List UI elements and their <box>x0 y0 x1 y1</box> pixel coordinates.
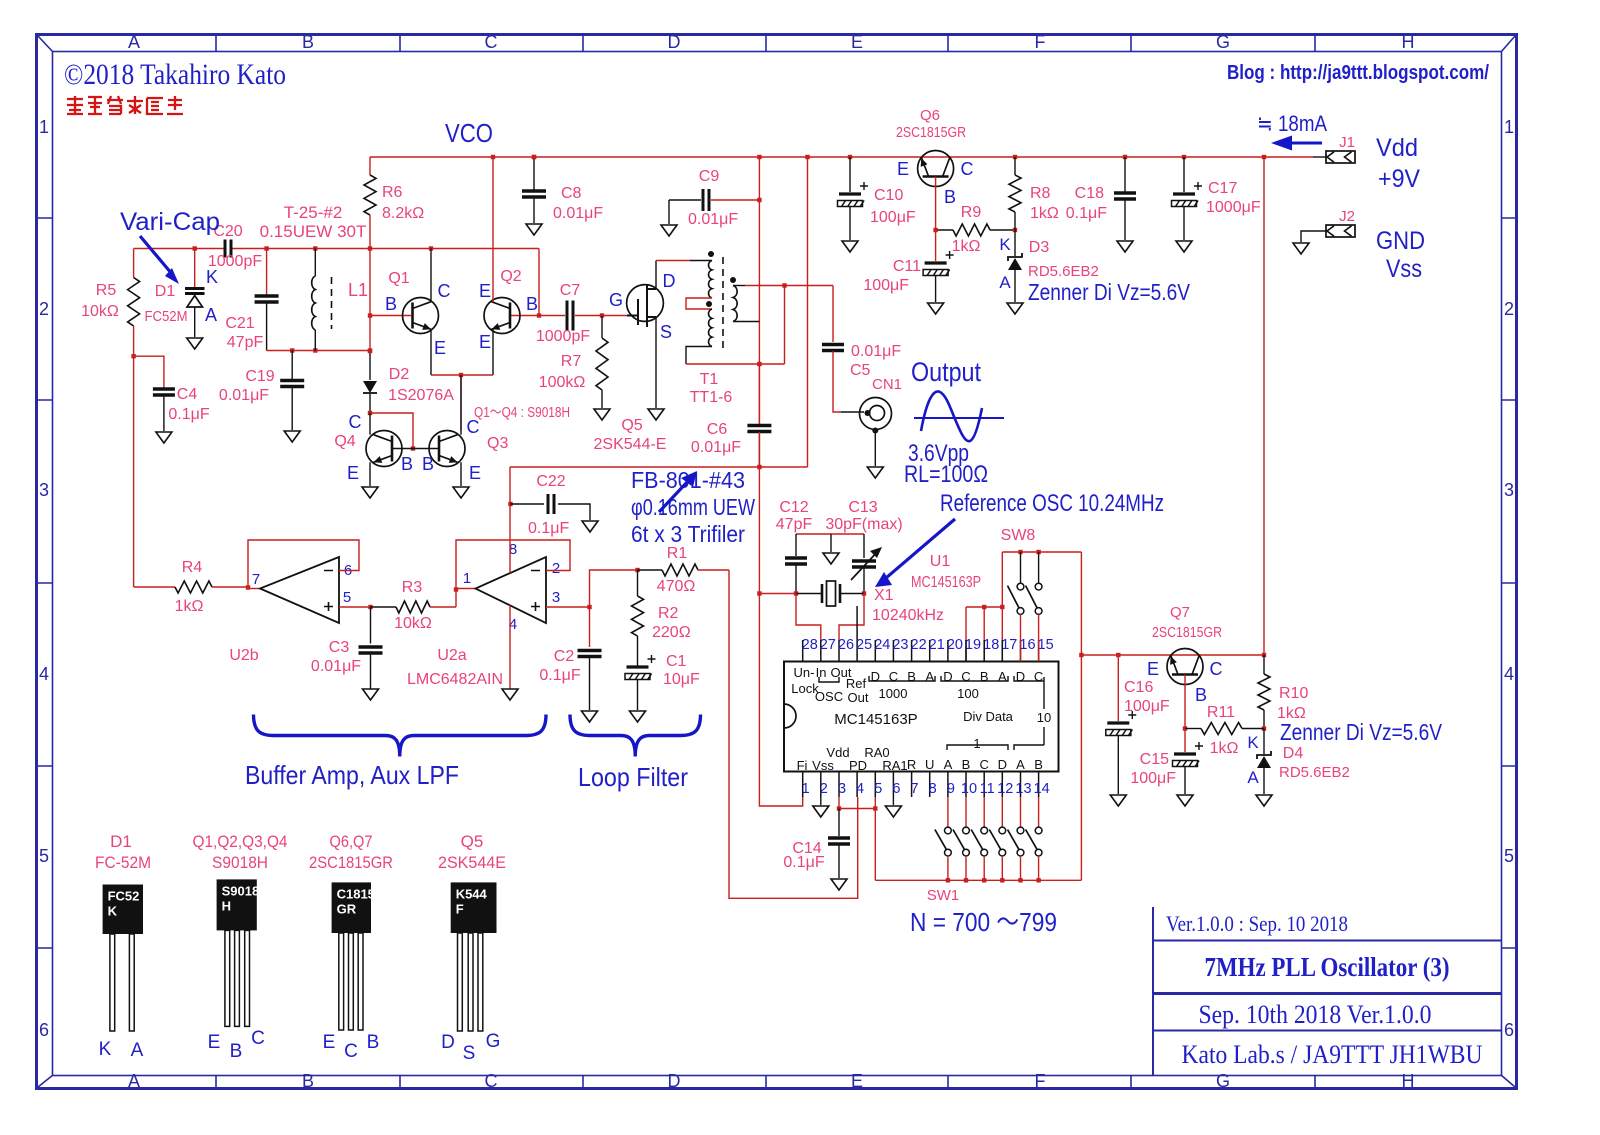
JFET Q5 <box>602 315 627 317</box>
svg-text:Div Data: Div Data <box>963 709 1014 724</box>
svg-text:B: B <box>1034 757 1043 772</box>
svg-text:27: 27 <box>820 637 836 653</box>
resistor R5 <box>133 249 135 278</box>
svg-text:CN1: CN1 <box>872 376 902 393</box>
svg-text:1kΩ: 1kΩ <box>952 238 981 255</box>
svg-text:4: 4 <box>856 781 864 797</box>
svg-text:26: 26 <box>838 637 854 653</box>
svg-text:B: B <box>526 294 538 314</box>
svg-text:0.01μF: 0.01μF <box>553 205 603 222</box>
svg-text:C15: C15 <box>1140 751 1169 768</box>
svg-text:R8: R8 <box>1030 185 1051 202</box>
switch SW1-3 <box>983 797 985 827</box>
svg-text:R2: R2 <box>658 605 679 622</box>
resistor R3 <box>396 601 430 613</box>
svg-text:R7: R7 <box>561 353 582 370</box>
node row y350 <box>267 350 370 352</box>
capacitor C18 <box>1124 157 1126 192</box>
svg-text:Vss: Vss <box>812 758 834 773</box>
svg-text:R: R <box>907 757 916 772</box>
svg-text:C: C <box>1034 669 1043 684</box>
svg-text:R9: R9 <box>961 204 982 221</box>
ground for Q3 <box>453 487 469 498</box>
svg-text:D4: D4 <box>1283 745 1304 762</box>
svg-text:100μF: 100μF <box>870 209 916 226</box>
svg-text:FC-52M: FC-52M <box>95 853 151 872</box>
ground for R7 <box>594 409 610 420</box>
svg-text:C12: C12 <box>779 499 808 516</box>
svg-text:1000pF: 1000pF <box>536 328 590 345</box>
svg-text:4: 4 <box>39 664 49 684</box>
capacitor C10 <box>849 157 851 192</box>
wire rail x760 top <box>758 157 760 364</box>
resistor R9 <box>936 229 953 231</box>
svg-text:A: A <box>999 273 1011 292</box>
ground for C14 <box>831 879 847 890</box>
svg-text:Q5: Q5 <box>461 832 484 851</box>
svg-text:0.1μF: 0.1μF <box>539 667 580 684</box>
svg-text:C: C <box>961 669 970 684</box>
wire T1 output riser <box>784 286 786 365</box>
wire emitter join y375 <box>431 374 493 376</box>
svg-text:2SC1815GR: 2SC1815GR <box>309 853 393 872</box>
svg-text:2SC1815GR: 2SC1815GR <box>1152 624 1222 641</box>
svg-text:1kΩ: 1kΩ <box>1210 740 1239 757</box>
svg-text:Vdd: Vdd <box>1376 134 1418 162</box>
svg-text:J2: J2 <box>1339 208 1355 225</box>
svg-text:H: H <box>1402 1071 1415 1091</box>
svg-text:100kΩ: 100kΩ <box>539 374 586 391</box>
svg-text:Q5: Q5 <box>621 417 642 434</box>
svg-text:C: C <box>485 1071 498 1091</box>
svg-text:Out: Out <box>848 690 869 705</box>
svg-text:C: C <box>349 412 362 432</box>
svg-text:Reference OSC 10.24MHz: Reference OSC 10.24MHz <box>940 490 1164 517</box>
ground for C18 <box>1117 241 1133 252</box>
svg-text:Q1,Q2,Q3,Q4: Q1,Q2,Q3,Q4 <box>193 832 288 851</box>
svg-text:G: G <box>486 1031 501 1052</box>
svg-text:φ0.16mm UEW: φ0.16mm UEW <box>631 494 755 520</box>
wire right rail from bus to Q7 row <box>1263 157 1265 655</box>
switch SW8-b <box>1038 552 1040 583</box>
svg-text:11: 11 <box>980 781 995 797</box>
svg-text:18: 18 <box>983 637 999 653</box>
svg-text:220Ω: 220Ω <box>652 624 691 641</box>
svg-text:7: 7 <box>911 781 919 797</box>
ground for C15 <box>1177 795 1193 806</box>
svg-text:5: 5 <box>1504 846 1514 866</box>
svg-text:A: A <box>944 757 953 772</box>
svg-text:K: K <box>108 904 118 919</box>
brace Loop Filter <box>570 715 701 757</box>
svg-text:FC52M: FC52M <box>145 308 188 325</box>
svg-text:G: G <box>1216 1071 1230 1091</box>
svg-text:Loop Filter: Loop Filter <box>578 762 688 792</box>
svg-text:3: 3 <box>39 480 49 500</box>
svg-text:C16: C16 <box>1124 679 1153 696</box>
svg-text:C: C <box>889 669 898 684</box>
svg-text:100: 100 <box>957 686 979 701</box>
svg-text:F: F <box>1035 1071 1046 1091</box>
ground for C8 <box>526 224 542 235</box>
svg-text:FC52: FC52 <box>108 889 140 904</box>
svg-text:D: D <box>441 1032 455 1053</box>
svg-text:K: K <box>1247 733 1259 752</box>
svg-text:R11: R11 <box>1207 704 1235 721</box>
svg-text:1S2076A: 1S2076A <box>388 387 454 404</box>
svg-text:Q2: Q2 <box>500 268 521 285</box>
svg-text:15: 15 <box>1038 637 1054 653</box>
svg-text:4: 4 <box>1504 664 1514 684</box>
svg-text:28: 28 <box>802 637 818 653</box>
svg-text:R3: R3 <box>402 579 423 596</box>
svg-text:Buffer Amp, Aux LPF: Buffer Amp, Aux LPF <box>245 760 459 790</box>
svg-text:B: B <box>980 669 989 684</box>
svg-text:A: A <box>128 1071 140 1091</box>
svg-text:0.1μF: 0.1μF <box>168 406 209 423</box>
svg-text:Q6: Q6 <box>920 107 940 124</box>
svg-text:0.01μF: 0.01μF <box>851 343 901 360</box>
wire +9V bus <box>370 156 1313 158</box>
svg-text:Blog : http://ja9ttt.blogspot.: Blog : http://ja9ttt.blogspot.com/ <box>1227 62 1489 84</box>
wire secondary to C5 <box>745 285 833 287</box>
svg-text:B: B <box>907 669 916 684</box>
svg-text:A: A <box>131 1040 144 1061</box>
ground for D4 <box>1256 795 1272 806</box>
op-amp U2a <box>455 590 457 608</box>
svg-text:2SC1815GR: 2SC1815GR <box>896 124 966 141</box>
ground for C2 <box>582 711 598 722</box>
svg-text:G: G <box>1216 32 1230 52</box>
svg-text:D: D <box>871 669 880 684</box>
svg-text:U: U <box>925 757 934 772</box>
svg-text:47pF: 47pF <box>776 516 813 533</box>
svg-text:A: A <box>1016 757 1025 772</box>
svg-text:L1: L1 <box>348 280 368 300</box>
svg-text:E: E <box>479 332 491 352</box>
svg-text:C13: C13 <box>848 499 877 516</box>
svg-text:5: 5 <box>343 589 351 606</box>
svg-text:TT1-6: TT1-6 <box>690 389 733 406</box>
svg-text:E: E <box>851 32 863 52</box>
capacitor C4 <box>134 356 164 388</box>
wire U2a pin4 ground <box>509 605 511 690</box>
svg-text:0.1μF: 0.1μF <box>528 520 569 537</box>
svg-text:0.1μF: 0.1μF <box>783 854 824 871</box>
BNC connector CN1 <box>860 398 892 430</box>
capacitor C15 <box>1184 729 1186 753</box>
svg-text:0.1μF: 0.1μF <box>1066 205 1107 222</box>
svg-text:U2a: U2a <box>437 647 466 664</box>
resistor R10 <box>1263 655 1265 674</box>
svg-text:C4: C4 <box>177 386 198 403</box>
ground for C4 <box>156 432 172 443</box>
svg-text:SW8: SW8 <box>1001 527 1036 544</box>
wire T1 bottom row <box>686 363 785 365</box>
wire U2b feedback <box>248 540 359 588</box>
wire RA0 to SW1 bus <box>874 797 876 880</box>
transformer T1 <box>656 260 690 262</box>
svg-text:B: B <box>367 1032 380 1053</box>
svg-text:C5: C5 <box>850 362 871 379</box>
svg-text:Output: Output <box>911 357 981 387</box>
svg-text:Zenner Di Vz=5.6V: Zenner Di Vz=5.6V <box>1280 719 1443 745</box>
svg-text:T-25-#2: T-25-#2 <box>284 203 343 222</box>
wire U2a feedback <box>456 540 570 590</box>
svg-text:2: 2 <box>820 781 828 797</box>
svg-text:Un-: Un- <box>794 665 815 680</box>
capacitor C2 <box>589 607 591 647</box>
svg-text:17: 17 <box>1001 637 1017 653</box>
svg-text:C1815: C1815 <box>337 886 375 901</box>
svg-text:E: E <box>434 338 446 358</box>
inductor L1 <box>314 249 316 277</box>
svg-text:6: 6 <box>892 781 900 797</box>
svg-text:B: B <box>962 757 971 772</box>
svg-text:Q6,Q7: Q6,Q7 <box>330 832 373 851</box>
svg-text:10kΩ: 10kΩ <box>394 615 432 632</box>
svg-text:Ref: Ref <box>846 676 867 691</box>
svg-text:D3: D3 <box>1029 239 1050 256</box>
svg-text:H: H <box>222 898 231 913</box>
svg-text:Q4: Q4 <box>334 433 355 450</box>
ground for D1 <box>187 338 203 349</box>
svg-text:1: 1 <box>39 117 49 137</box>
svg-text:F: F <box>1035 32 1046 52</box>
svg-text:21: 21 <box>929 637 945 653</box>
junction on bus <box>1013 155 1017 159</box>
junction on bus <box>1182 155 1186 159</box>
svg-text:Zenner Di Vz=5.6V: Zenner Di Vz=5.6V <box>1028 279 1191 305</box>
diode D2 <box>369 351 371 380</box>
wire right rail down to SW1 bus <box>1080 655 1082 880</box>
svg-text:D: D <box>1016 669 1025 684</box>
svg-text:R5: R5 <box>96 282 117 299</box>
svg-text:C18: C18 <box>1075 185 1104 202</box>
svg-text:0.01μF: 0.01μF <box>691 439 741 456</box>
svg-text:R6: R6 <box>382 184 403 201</box>
svg-text:25: 25 <box>856 637 872 653</box>
capacitor C3 <box>370 607 372 644</box>
switch SW1-6 <box>1038 797 1040 827</box>
svg-text:D2: D2 <box>389 366 410 383</box>
svg-text:20: 20 <box>947 637 963 653</box>
wire U2a pin8 supply riser <box>509 467 511 573</box>
resistor R1 <box>662 564 698 576</box>
resistor R2 <box>637 570 639 596</box>
capacitor C6 <box>758 364 760 424</box>
svg-text:D: D <box>668 32 681 52</box>
svg-text:F: F <box>456 901 464 916</box>
ground for pin6 <box>892 797 894 805</box>
svg-text:S9018: S9018 <box>222 883 260 898</box>
svg-text:5: 5 <box>39 846 49 866</box>
transistor Q4 <box>366 431 402 467</box>
svg-text:16: 16 <box>1019 637 1035 653</box>
title block <box>1153 907 1502 1076</box>
svg-text:S: S <box>463 1043 476 1064</box>
ground for J2 <box>1293 243 1309 254</box>
wire rail x760 mid <box>758 364 760 424</box>
svg-text:U1: U1 <box>930 553 951 570</box>
svg-text:N = 700 ～799: N = 700 ～799 <box>910 907 1057 937</box>
svg-text:0.15UEW 30T: 0.15UEW 30T <box>260 222 367 241</box>
svg-text:24: 24 <box>874 637 890 653</box>
svg-text:Fi: Fi <box>797 758 808 773</box>
connector J1 <box>1313 156 1326 158</box>
wire U2a pin3 node <box>546 606 590 608</box>
switch SW1-4 <box>1001 797 1003 827</box>
junction on bus <box>1123 155 1127 159</box>
svg-text:7: 7 <box>252 571 260 588</box>
svg-text:23: 23 <box>892 637 908 653</box>
capacitor C17 <box>1183 157 1185 192</box>
svg-text:8: 8 <box>929 781 937 797</box>
svg-text:2SK544-E: 2SK544-E <box>594 436 667 453</box>
svg-text:+9V: +9V <box>1378 165 1420 193</box>
svg-text:B: B <box>1195 685 1207 705</box>
capacitor C12 <box>795 534 797 556</box>
resistor R8 <box>1014 157 1016 175</box>
svg-text:C11: C11 <box>893 258 921 275</box>
ground for CN1 <box>867 467 883 478</box>
transistor Q1 <box>370 315 411 317</box>
svg-text:A: A <box>1247 768 1259 787</box>
svg-text:B: B <box>385 294 397 314</box>
U1 bottom pin numbers <box>802 781 1050 797</box>
ground stub crystal rail <box>830 534 832 552</box>
svg-text:100μF: 100μF <box>1130 770 1176 787</box>
svg-text:1: 1 <box>1504 117 1514 137</box>
svg-text:0.01μF: 0.01μF <box>688 211 738 228</box>
svg-text:D1: D1 <box>155 283 176 300</box>
transistor Q2 <box>538 249 540 316</box>
capacitor C19 <box>291 351 293 380</box>
svg-text:E: E <box>897 159 909 179</box>
svg-text:VCO: VCO <box>445 118 493 148</box>
svg-text:C6: C6 <box>707 421 728 438</box>
svg-text:G: G <box>609 290 623 310</box>
svg-text:2SK544E: 2SK544E <box>438 853 506 872</box>
resistor R7 <box>601 316 603 339</box>
capacitor C21 <box>266 249 268 296</box>
svg-text:C17: C17 <box>1208 180 1237 197</box>
switch SW8-a <box>1020 552 1022 583</box>
svg-text:C3: C3 <box>329 639 350 656</box>
capacitor C9 <box>669 199 701 201</box>
svg-text:C: C <box>251 1028 265 1049</box>
svg-text:A: A <box>925 669 934 684</box>
svg-text:Kato Lab.s / JA9TTT JH1WBU: Kato Lab.s / JA9TTT JH1WBU <box>1182 1040 1483 1069</box>
svg-text:K: K <box>206 267 218 287</box>
ground for C17 <box>1176 241 1192 252</box>
ground for C9 <box>661 225 677 236</box>
svg-text:C: C <box>485 32 498 52</box>
svg-text:3: 3 <box>838 781 846 797</box>
svg-text:H: H <box>1402 32 1415 52</box>
ground for Q4 <box>362 487 378 498</box>
capacitor C1 <box>627 665 649 668</box>
resistor R11 <box>1185 728 1201 730</box>
svg-text:PD: PD <box>849 758 867 773</box>
svg-text:D: D <box>943 669 952 684</box>
svg-text:A: A <box>128 32 140 52</box>
wire R5 to R4 column <box>133 356 135 587</box>
svg-text:1kΩ: 1kΩ <box>1030 205 1059 222</box>
svg-text:A: A <box>205 305 217 325</box>
svg-text:C: C <box>980 757 989 772</box>
zener diode D3 <box>1014 230 1016 256</box>
wire pin3 to R1 row <box>590 570 638 607</box>
wire crystal to pin27 <box>796 594 821 641</box>
ground for C11 <box>928 303 944 314</box>
svg-text:C: C <box>1210 659 1223 679</box>
svg-text:RD5.6EB2: RD5.6EB2 <box>1028 263 1099 280</box>
svg-text:E: E <box>479 281 491 301</box>
U1 top pin leads <box>803 606 1039 662</box>
ground for C3 <box>363 689 379 700</box>
wire x370 column <box>369 249 371 352</box>
switch SW1-5 <box>1020 797 1022 827</box>
svg-text:E: E <box>1147 659 1159 679</box>
svg-text:8.2kΩ: 8.2kΩ <box>382 205 424 222</box>
capacitor C14 and Vdd pin wiring <box>838 797 840 809</box>
trimmer capacitor C13 <box>863 534 865 558</box>
svg-text:1000: 1000 <box>879 686 908 701</box>
svg-text:1: 1 <box>463 570 471 587</box>
svg-text:C: C <box>344 1041 358 1062</box>
transistor Q7 <box>1167 649 1203 685</box>
svg-text:S: S <box>660 322 672 342</box>
svg-text:Ver.1.0.0 : Sep. 10 2018: Ver.1.0.0 : Sep. 10 2018 <box>1166 911 1348 936</box>
svg-text:C: C <box>961 159 974 179</box>
junction on bus <box>805 155 809 159</box>
transistor Q6 <box>918 151 954 187</box>
svg-text:10μF: 10μF <box>663 671 700 688</box>
svg-text:10240kHz: 10240kHz <box>872 607 944 624</box>
svg-text:B: B <box>302 32 314 52</box>
resistor R4 <box>134 586 175 588</box>
svg-text:5: 5 <box>874 781 882 797</box>
svg-text:LMC6482AIN: LMC6482AIN <box>407 671 503 688</box>
svg-text:Sep. 10th 2018 Ver.1.0.0: Sep. 10th 2018 Ver.1.0.0 <box>1199 1000 1432 1029</box>
svg-text:RL=100Ω: RL=100Ω <box>904 461 988 488</box>
no-reproduction kanji text <box>67 96 183 114</box>
wire supply row y467 <box>510 466 808 468</box>
svg-text:≒ 18mA: ≒ 18mA <box>1257 111 1327 136</box>
ground for pin2 <box>820 797 822 805</box>
svg-text:0.01μF: 0.01μF <box>219 387 269 404</box>
svg-text:B: B <box>401 454 413 474</box>
svg-text:GND: GND <box>1376 227 1425 255</box>
svg-text:S9018H: S9018H <box>212 853 268 872</box>
svg-text:10: 10 <box>961 781 977 797</box>
junction on bus <box>757 155 761 159</box>
svg-text:C7: C7 <box>560 282 581 299</box>
crystal X1 <box>759 593 796 595</box>
ground for C19 <box>284 431 300 442</box>
svg-text:6: 6 <box>1504 1020 1514 1040</box>
svg-text:RA1: RA1 <box>882 758 907 773</box>
svg-text:R10: R10 <box>1279 685 1308 702</box>
svg-text:B: B <box>230 1041 243 1062</box>
svg-text:47pF: 47pF <box>227 334 264 351</box>
U1 internal labels <box>791 665 1051 773</box>
svg-text:GR: GR <box>337 901 357 916</box>
wire trimmer to pin26 <box>839 594 864 641</box>
svg-text:SW1: SW1 <box>927 887 960 904</box>
svg-text:2: 2 <box>39 299 49 319</box>
